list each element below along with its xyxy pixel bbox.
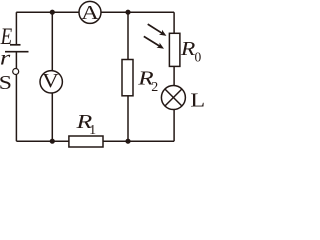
ammeter A circle <box>79 1 101 23</box>
svg-text:R: R <box>180 38 196 60</box>
wire left vertical (battery/switch branch) <box>15 12 17 45</box>
lamp L cross diagonal 1 <box>165 89 182 106</box>
svg-text:A: A <box>81 1 100 23</box>
node junction dot bottom-right <box>125 139 130 144</box>
wire right branch vertical (R0 + lamp) <box>173 12 175 141</box>
battery E plate short (top) <box>10 44 21 46</box>
svg-text:0: 0 <box>195 50 202 65</box>
resistor R2 box <box>122 60 133 96</box>
wire R2 branch vertical <box>127 12 129 141</box>
wire voltmeter branch vertical <box>51 12 53 141</box>
battery E plate long (bottom) <box>5 51 29 53</box>
node junction dot top-right (R2 tap) <box>125 10 130 15</box>
svg-text:1: 1 <box>89 123 96 138</box>
light arrow 1 head <box>159 30 166 36</box>
wire switch to bottom rail <box>15 75 17 142</box>
svg-text:L: L <box>190 89 205 111</box>
resistor R1 box <box>69 136 103 147</box>
node junction dot top-left (voltmeter tap) <box>50 10 55 15</box>
svg-text:2: 2 <box>151 80 158 95</box>
light arrow 2 shaft <box>144 36 161 46</box>
svg-text:V: V <box>42 69 59 91</box>
svg-text:E: E <box>0 23 12 49</box>
node junction dot bottom-left <box>50 139 55 144</box>
svg-text:S: S <box>0 71 12 94</box>
switch S contact circle <box>13 69 19 75</box>
voltmeter V circle <box>40 71 62 93</box>
wire bottom rail <box>16 140 174 142</box>
light arrow 2 head <box>157 43 164 49</box>
resistor R0 box (photoresistor) <box>169 33 180 66</box>
lamp L circle <box>161 86 185 110</box>
wire battery to switch <box>15 52 17 69</box>
wire top rail <box>16 11 174 13</box>
svg-text:r: r <box>0 47 11 69</box>
lamp L cross diagonal 2 <box>165 89 182 106</box>
light arrow 1 shaft <box>148 24 163 34</box>
